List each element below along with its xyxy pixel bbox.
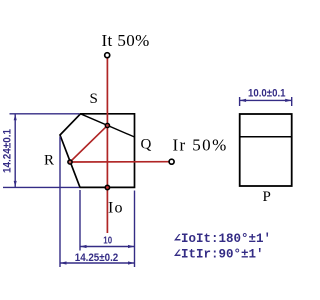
ray reflected from beamsplitter to point R <box>70 126 107 163</box>
dimension 10.0±0.1 arrow right <box>285 99 292 102</box>
dimension 10.0±0.1 extension line left <box>239 97 241 106</box>
dimension 10.0±0.1 line <box>240 99 292 101</box>
svg-text:Io: Io <box>108 200 124 217</box>
svg-text:10.0±0.1: 10.0±0.1 <box>248 88 286 100</box>
dimension 14.25±0.2 extension line right (x=134.5, lower part) <box>134 251 136 268</box>
plate P internal divider line <box>240 136 292 138</box>
svg-text:∠ItIr:90°±1′: ∠ItIr:90°±1′ <box>174 248 264 262</box>
dimension 14.24±0.1 extension line bottom <box>3 186 79 188</box>
dimension 10 line <box>80 246 135 248</box>
dimension 14.24±0.1 arrow up <box>14 114 17 121</box>
svg-text:R: R <box>44 153 54 169</box>
dimension 10 arrow right <box>128 245 135 248</box>
dimension 10.0±0.1 arrow left <box>240 99 247 102</box>
dimension 14.25±0.2 line <box>60 262 135 264</box>
dimension 10 arrow left <box>80 245 87 248</box>
svg-text:∠IoIt:180°±1′: ∠IoIt:180°±1′ <box>174 232 272 246</box>
node Io entry point <box>105 185 109 189</box>
dimension 14.25±0.2 arrow right <box>128 261 135 264</box>
svg-text:It 50%: It 50% <box>102 31 150 50</box>
svg-text:14.25±0.2: 14.25±0.2 <box>75 252 119 264</box>
node It endpoint circle <box>105 53 110 58</box>
svg-text:Ir 50%: Ir 50% <box>173 136 228 155</box>
dimension 14.24±0.1 arrow down <box>14 181 17 188</box>
pentaprism body outline <box>60 114 135 188</box>
dimension 14.24±0.1 extension line top <box>10 113 80 115</box>
ray Ir (horizontal output beam) <box>70 161 169 163</box>
svg-text:P: P <box>263 189 271 205</box>
dimension 14.25±0.2 extension line left (x=60) <box>59 137 61 268</box>
svg-text:10: 10 <box>103 236 112 247</box>
dimension 14.25±0.2 arrow left <box>60 261 67 264</box>
node R reflection point <box>68 160 72 164</box>
plate P rectangle (side view) <box>240 114 292 186</box>
dimension 14.24±0.1 line <box>14 114 16 188</box>
beamsplitter surface (internal diagonal from S vertex to right face) <box>81 114 135 137</box>
svg-text:Q: Q <box>141 137 152 153</box>
dimension 10 extension line left (x=80) <box>79 190 81 251</box>
dimension 10.0±0.1 extension line right <box>291 97 293 106</box>
svg-text:S: S <box>90 91 98 107</box>
svg-text:14.24±0.1: 14.24±0.1 <box>2 129 14 173</box>
node Ir endpoint circle <box>169 159 174 164</box>
dimension 10 extension line right (x=134.5) <box>134 191 136 251</box>
ray It (vertical input/transmitted beam) <box>106 58 108 233</box>
node beamsplitter intersection point <box>105 123 109 127</box>
